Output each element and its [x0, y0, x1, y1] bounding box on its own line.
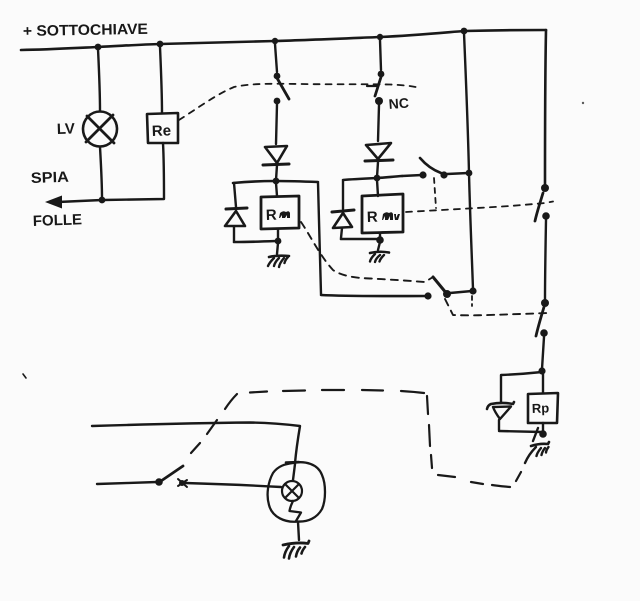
- wire bottom lower (to switch): [97, 482, 157, 484]
- mechanical link S5 to S7 (dashed): [445, 299, 547, 315]
- wire switch to diode D3: [378, 105, 379, 141]
- svg-text:+ SOTTOCHIAVE: + SOTTOCHIAVE: [23, 21, 148, 40]
- motor lead in from top: [293, 464, 295, 480]
- switch S1 branch1: [274, 73, 289, 105]
- junction on top rail at branch 1: [272, 38, 278, 44]
- wire D5 to loop bottom: [498, 420, 500, 430]
- wire node to Rm box: [276, 183, 277, 196]
- wire S5 to inner rail: [450, 291, 472, 293]
- wire Rm to ground: [277, 243, 278, 254]
- mechanical link Rav to S6 (dashed horizontal): [406, 202, 553, 213]
- diode D1: [263, 146, 289, 165]
- wire Rav loop bottom: [341, 238, 379, 241]
- wire Re to SPIA node: [103, 143, 164, 200]
- wire branch2 rail to switch: [380, 40, 381, 70]
- wire right rail mid: [545, 220, 546, 300]
- ground under Rm: [268, 256, 289, 267]
- wire switch to motor: [185, 483, 281, 487]
- junction inner rail mid: [466, 170, 473, 177]
- wire branch1 rail to switch: [275, 44, 277, 72]
- diode D5 freewheel Rp: [487, 402, 514, 419]
- mechanical link Rm to S5 (dashed): [301, 222, 433, 282]
- wire lamp to SPIA node: [100, 147, 102, 198]
- wire Rm loop bottom: [234, 241, 276, 242]
- wire Rm loop right long drop: [318, 183, 321, 294]
- mechanical link Re to top switches (dashed): [179, 84, 420, 120]
- diode D3: [365, 143, 393, 161]
- wire Rp loop top: [501, 372, 542, 403]
- diode D2 freewheel Rm: [225, 208, 247, 226]
- wire D1 to node: [276, 165, 277, 180]
- motor squiggle to bottom: [290, 501, 302, 521]
- junction SPIA node: [99, 197, 106, 204]
- wire Rm box to ground node: [277, 229, 279, 240]
- wire Re branch drop: [160, 47, 162, 113]
- svg-text:Re: Re: [152, 122, 172, 140]
- speck left middle: [23, 374, 26, 378]
- motor M outline: [268, 462, 325, 521]
- junction Rm bottom: [275, 238, 282, 245]
- wire Rav loop left: [342, 181, 344, 209]
- lamp inside motor: [282, 481, 302, 501]
- relay Rav box: [362, 194, 403, 233]
- wire right rail to Rp: [542, 337, 544, 369]
- wire to FOLLE arrow: [58, 200, 102, 202]
- junction node branch2: [374, 175, 381, 182]
- wire S4 to inner rail: [447, 173, 468, 174]
- wire Rav box to ground node: [379, 233, 381, 238]
- wire motor to ground: [298, 522, 299, 540]
- wire node to switch S4: [402, 175, 422, 176]
- wire junction to Rp box: [542, 373, 544, 393]
- wire inner rail stub below: [471, 296, 473, 306]
- mechanical link Rp to bottom switch (dashed path): [191, 390, 521, 487]
- wire D2 to loop bottom: [233, 227, 235, 241]
- switch S6 right upper: [535, 184, 550, 221]
- switch S5 bottom middle: [424, 277, 451, 300]
- wire node to Rav box: [377, 180, 378, 196]
- wire LV branch drop: [98, 49, 100, 111]
- wire outer right rail top: [545, 30, 546, 186]
- diode D4 freewheel Rav: [332, 210, 354, 228]
- switch S8 bottom left: [155, 466, 187, 487]
- speck top right: [582, 102, 584, 104]
- wire Rav to ground: [378, 242, 380, 250]
- junction on top rail at Re branch: [157, 41, 164, 48]
- junction inner rail bottom: [469, 287, 476, 294]
- svg-text:NC: NC: [388, 95, 409, 112]
- relay Re box: [147, 113, 178, 143]
- junction on top rail at branch 2: [377, 34, 383, 40]
- relay Rm box: [261, 196, 299, 229]
- switch S7 right lower: [536, 299, 549, 337]
- wire Rp loop bottom: [499, 431, 542, 432]
- arrow FOLLE: [45, 196, 62, 209]
- switch S4 middle right: [419, 158, 447, 179]
- wire D4 to loop bottom: [341, 228, 342, 238]
- junction Rav bottom: [376, 236, 384, 244]
- junction Rp bottom: [539, 430, 547, 438]
- wire to switch S5: [321, 295, 427, 296]
- mechanical link Rav to S4 (dashed vertical): [434, 178, 436, 208]
- svg-text:SPIA: SPIA: [31, 169, 70, 187]
- junction on top rail at inner right rail: [461, 28, 468, 35]
- junction Rp top: [538, 367, 545, 374]
- wire Rm loop top: [233, 181, 318, 183]
- svg-text:R: R: [266, 207, 278, 224]
- wire Rp box to ground: [542, 423, 544, 431]
- wire Rm loop left: [234, 183, 236, 207]
- svg-text:R: R: [367, 209, 379, 226]
- junction on top rail at LV branch: [95, 44, 102, 51]
- lamp LV symbol: [83, 112, 117, 147]
- wire D3 to node: [377, 162, 378, 177]
- relay Rp box: [528, 393, 558, 423]
- net label +SOTTOCHIAVE: [23, 21, 148, 40]
- ground under Rp: [525, 442, 549, 463]
- wire Rav loop top: [343, 176, 402, 180]
- wire inner right rail: [464, 33, 473, 289]
- svg-text:LV: LV: [57, 120, 76, 138]
- switch S2 branch2 NC: [367, 71, 384, 105]
- svg-text:FOLLE: FOLLE: [33, 211, 83, 230]
- wire bottom upper (to motor top): [92, 423, 300, 464]
- ground under motor: [283, 541, 309, 559]
- junction node branch1: [273, 178, 280, 185]
- ground under Rav: [370, 252, 389, 262]
- svg-text:Rp: Rp: [532, 400, 550, 416]
- wire switch to diode D1: [276, 104, 277, 144]
- wire top rail: [21, 30, 546, 50]
- stray stroke at Rp bottom: [533, 428, 538, 441]
